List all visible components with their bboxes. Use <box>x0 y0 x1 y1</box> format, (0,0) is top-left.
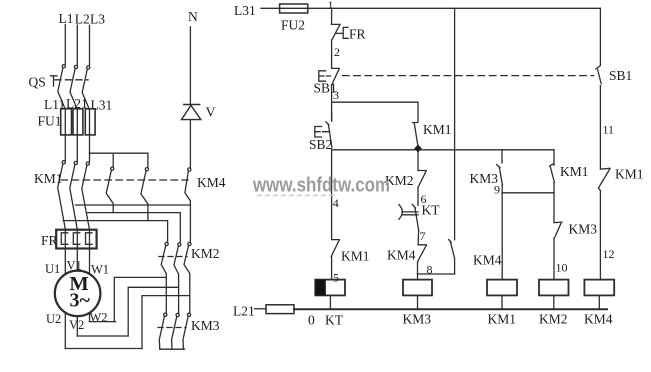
svg-text:6: 6 <box>421 192 427 206</box>
svg-text:7: 7 <box>420 229 426 243</box>
svg-text:L2: L2 <box>75 11 90 26</box>
svg-text:W1: W1 <box>91 263 109 277</box>
svg-text:9: 9 <box>494 183 500 197</box>
svg-text:1: 1 <box>328 0 334 12</box>
svg-text:L21: L21 <box>233 304 255 319</box>
svg-text:KM1: KM1 <box>615 167 644 182</box>
svg-text:KM3: KM3 <box>403 312 432 327</box>
svg-text:KM3: KM3 <box>191 318 220 333</box>
svg-text:KM4: KM4 <box>197 175 226 190</box>
svg-text:U1: U1 <box>45 262 60 276</box>
svg-text:3: 3 <box>333 88 339 102</box>
svg-text:~: ~ <box>80 290 91 312</box>
svg-text:KM1: KM1 <box>34 171 63 186</box>
svg-text:KM4: KM4 <box>584 312 613 327</box>
svg-text:FU1: FU1 <box>38 114 62 129</box>
svg-text:KM1: KM1 <box>560 164 589 179</box>
svg-text:5: 5 <box>333 271 339 285</box>
svg-text:FR: FR <box>41 233 58 248</box>
svg-text:FU2: FU2 <box>281 18 305 33</box>
svg-text:KT: KT <box>325 312 344 327</box>
svg-text:L1: L1 <box>59 11 74 26</box>
svg-text:U2: U2 <box>46 312 61 326</box>
svg-text:KM2: KM2 <box>191 246 220 261</box>
svg-text:2: 2 <box>334 45 340 59</box>
svg-text:V: V <box>206 106 216 121</box>
svg-text:QS: QS <box>29 75 46 90</box>
svg-text:L21: L21 <box>66 96 88 111</box>
svg-text:KM2: KM2 <box>539 312 568 327</box>
svg-text:4: 4 <box>333 196 339 210</box>
svg-text:0: 0 <box>308 312 315 327</box>
svg-text:KM1: KM1 <box>341 249 370 264</box>
svg-text:KM3: KM3 <box>569 222 598 237</box>
svg-text:W2: W2 <box>90 311 108 325</box>
svg-text:L31: L31 <box>91 98 113 113</box>
svg-text:V2: V2 <box>69 318 84 332</box>
svg-text:KM4: KM4 <box>473 253 502 268</box>
svg-text:V1: V1 <box>67 259 82 273</box>
svg-text:10: 10 <box>556 261 568 275</box>
svg-text:N: N <box>188 9 198 24</box>
svg-text:11: 11 <box>603 123 615 137</box>
svg-text:L3: L3 <box>90 12 105 27</box>
svg-text:L11: L11 <box>44 97 65 112</box>
svg-text:8: 8 <box>427 263 433 277</box>
svg-text:KM1: KM1 <box>423 122 452 137</box>
svg-text:3: 3 <box>70 290 80 312</box>
svg-text:SB1: SB1 <box>609 68 632 83</box>
svg-text:L31: L31 <box>234 3 256 18</box>
svg-text:www.shfdtw.com: www.shfdtw.com <box>252 174 390 197</box>
svg-text:KM4: KM4 <box>387 248 416 263</box>
svg-text:KM1: KM1 <box>488 312 517 327</box>
svg-text:FR: FR <box>349 27 366 42</box>
svg-text:SB2: SB2 <box>309 137 332 152</box>
svg-text:12: 12 <box>603 247 615 261</box>
